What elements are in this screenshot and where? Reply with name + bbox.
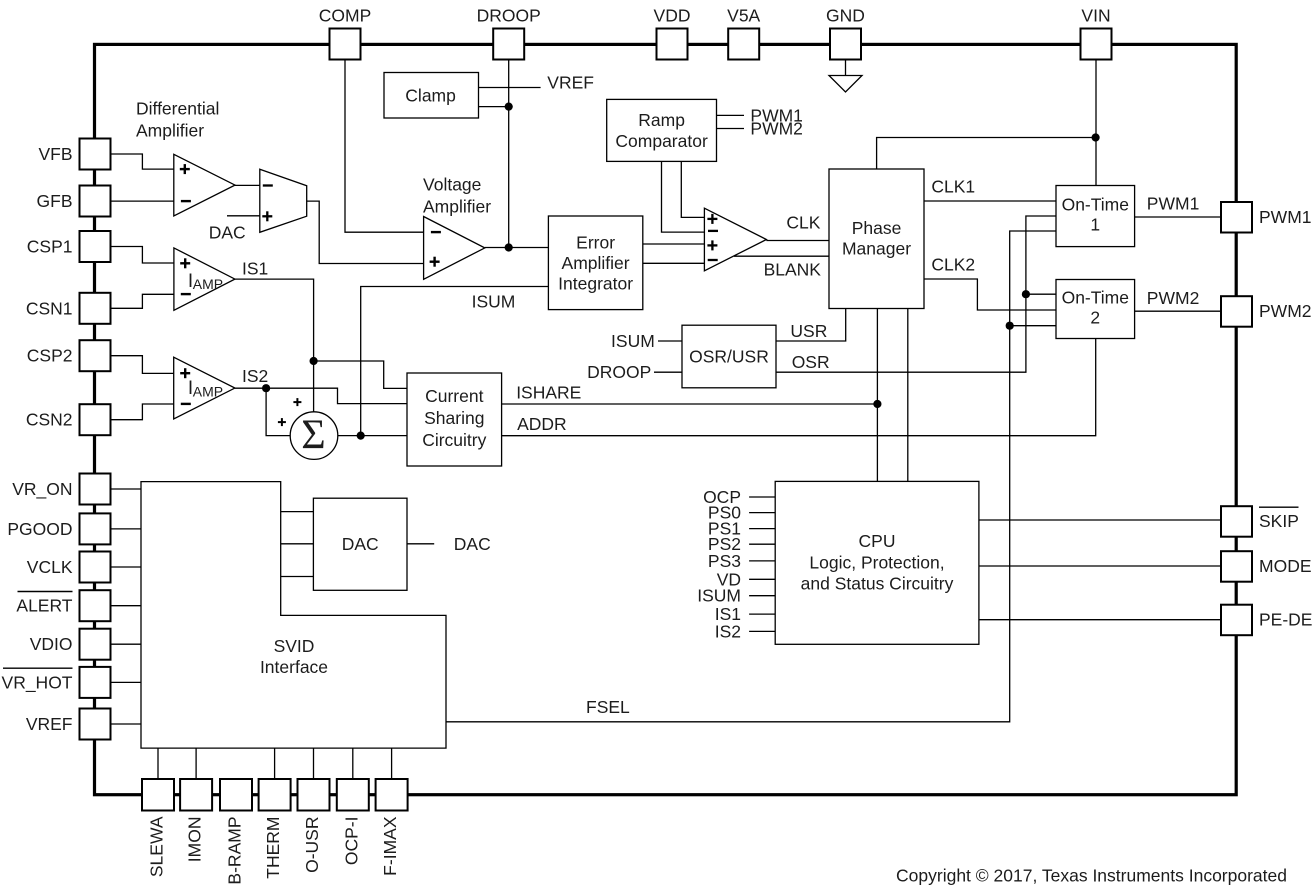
pin PWM1 [1221, 202, 1252, 233]
wire FSEL [446, 231, 1056, 722]
svg-text:IS1: IS1 [242, 259, 268, 279]
wire CSP2 to IAMP2 [111, 356, 174, 374]
wire IS1 stub [749, 613, 775, 615]
wire PS0 stub [749, 512, 775, 514]
block Ramp Comparator [607, 99, 717, 161]
pin SKIP [1221, 506, 1252, 537]
svg-text:VIN: VIN [1081, 6, 1110, 26]
wire SVID to DAC 2 [281, 543, 314, 545]
wire DROOP stub [654, 371, 682, 373]
wire SVID to IMON [195, 748, 197, 779]
svg-text:Manager: Manager [842, 239, 911, 259]
pin VFB [80, 139, 111, 170]
pin VR_ON [80, 474, 111, 505]
wire IS2 to summer [266, 388, 290, 435]
svg-text:VFB: VFB [38, 144, 72, 164]
block On-Time 1 [1056, 186, 1135, 247]
wire COMP to voltage amplifier [345, 60, 424, 233]
svg-text:Error: Error [576, 233, 615, 253]
pin CSP1 [80, 231, 111, 262]
pin F-IMAX [376, 779, 408, 811]
wire FSEL to on-time 2 [1010, 325, 1056, 327]
wire VIN down [1095, 60, 1097, 186]
svg-text:PGOOD: PGOOD [7, 519, 72, 539]
wire CLK [766, 240, 829, 242]
ground [845, 60, 847, 76]
svg-text:Integrator: Integrator [558, 274, 633, 294]
svg-text:OSR/USR: OSR/USR [689, 347, 769, 367]
svg-text:PWM2: PWM2 [1147, 288, 1200, 308]
svg-text:Voltage: Voltage [423, 175, 481, 195]
svg-text:Differential: Differential [136, 99, 219, 119]
svg-text:Amplifier: Amplifier [136, 121, 204, 141]
wire CSN2 to IAMP2 [111, 404, 174, 420]
svg-text:DROOP: DROOP [477, 6, 541, 26]
svg-text:VR_ON: VR_ON [12, 479, 72, 500]
block On-Time 2 [1056, 280, 1135, 339]
block OSR/USR [682, 325, 776, 388]
svg-text:CSP1: CSP1 [27, 237, 73, 257]
svg-text:SLEWA: SLEWA [147, 816, 167, 877]
op-amp differential amplifier [174, 154, 235, 216]
wire GFB to diff amp [111, 200, 174, 202]
pin VIN [1081, 29, 1112, 60]
svg-text:ISUM: ISUM [697, 586, 741, 606]
wire ISUM to error amplifier [361, 287, 549, 436]
svg-text:BLANK: BLANK [764, 260, 822, 280]
block Error Amplifier Integrator [548, 216, 642, 310]
mux DAC select [260, 169, 307, 232]
block Phase Manager [829, 169, 924, 309]
node IS1 branch [310, 357, 318, 365]
node VIN branch [1092, 133, 1100, 141]
svg-text:THERM: THERM [263, 817, 283, 879]
svg-text:VDD: VDD [654, 6, 691, 26]
block DAC [313, 498, 407, 590]
pin GFB [80, 186, 111, 217]
pin VR_HOT [80, 667, 111, 698]
svg-text:AMP: AMP [193, 276, 223, 292]
svg-text:Ramp: Ramp [638, 110, 685, 130]
wire PS1 stub [749, 528, 775, 530]
pin ALERT [80, 590, 111, 621]
pin GND [830, 29, 861, 60]
pin B-RAMP [220, 779, 252, 811]
wire EAI out1 [643, 243, 705, 245]
wire OSR [776, 216, 1056, 372]
op-amp IAMP1 [174, 248, 235, 310]
wire DAC out [407, 543, 434, 545]
wire SVID to SLEWA [157, 748, 159, 779]
wire USR [776, 309, 846, 342]
wire VR_ON to SVID [111, 488, 142, 490]
svg-text:ISUM: ISUM [611, 331, 655, 351]
svg-text:SVID: SVID [274, 636, 315, 656]
wire VDIO to SVID [111, 643, 142, 645]
svg-text:PE-DE: PE-DE [1259, 610, 1312, 630]
svg-text:Phase: Phase [852, 218, 902, 238]
wire SVID to DAC 1 [281, 511, 314, 513]
svg-text:CLK: CLK [786, 213, 820, 233]
wire ISHARE [502, 403, 878, 405]
op-amp voltage amplifier [424, 217, 485, 280]
wire ADDR [502, 339, 1096, 436]
svg-text:DAC: DAC [454, 534, 491, 554]
pin V5A [728, 29, 759, 60]
pin OCP-I [337, 779, 369, 811]
label plus left [278, 421, 286, 423]
node OSR branch [1022, 290, 1030, 298]
wire IS1 to current sharing [314, 361, 407, 388]
pin MODE [1221, 551, 1252, 582]
svg-text:COMP: COMP [319, 6, 372, 26]
wire VFB to diff amp [111, 154, 174, 169]
wire OCP stub [749, 496, 775, 498]
wire EAI out2 [643, 262, 705, 264]
wire VR_HOT to SVID [111, 681, 142, 683]
svg-text:DAC: DAC [342, 534, 379, 554]
svg-text:Amplifier: Amplifier [562, 253, 630, 273]
op-amp IAMP2 [174, 357, 235, 419]
wire CLK1 [924, 200, 1056, 202]
wire SVID to OCP-I [352, 748, 354, 779]
svg-text:Current: Current [425, 386, 483, 406]
node IS2 branch [262, 384, 270, 392]
wire PWM2 out [1135, 310, 1221, 312]
comparator [704, 208, 766, 271]
pin IMON [180, 779, 212, 811]
svg-text:On-Time: On-Time [1062, 288, 1129, 308]
pin PE-DE [1221, 605, 1252, 636]
svg-text:DAC: DAC [209, 223, 246, 243]
svg-text:VCLK: VCLK [27, 557, 73, 577]
svg-text:MODE: MODE [1259, 556, 1312, 576]
svg-text:OSR: OSR [792, 352, 830, 372]
svg-text:IMON: IMON [185, 817, 205, 863]
svg-text:Interface: Interface [260, 657, 328, 677]
svg-text:VR_HOT: VR_HOT [2, 672, 73, 693]
svg-text:AMP: AMP [193, 384, 223, 400]
pin VDIO [80, 629, 111, 660]
svg-text:CLK2: CLK2 [931, 255, 975, 275]
pin VREF [80, 709, 111, 740]
wire DAC stub to mux [227, 215, 260, 217]
wire SVID to F-IMAX [391, 748, 393, 779]
svg-text:PS3: PS3 [708, 551, 741, 571]
wire DROOP down [508, 60, 510, 248]
svg-text:VREF: VREF [26, 714, 73, 734]
block SVID Interface [141, 482, 446, 748]
svg-text:V5A: V5A [727, 6, 760, 26]
wire summer output [338, 435, 407, 437]
wire PS3 stub [749, 560, 775, 562]
node FSEL branch [1006, 322, 1014, 330]
svg-text:PWM1: PWM1 [1259, 207, 1312, 227]
wire ramp to comparator b [662, 161, 705, 232]
wire IS2 [235, 388, 407, 403]
wire OSR to on-time 2 [1026, 293, 1056, 295]
svg-text:DROOP: DROOP [587, 362, 651, 382]
svg-text:On-Time: On-Time [1062, 195, 1129, 215]
svg-text:Sharing: Sharing [424, 408, 484, 428]
wire VREF to SVID [111, 723, 142, 725]
svg-text:VREF: VREF [547, 73, 594, 93]
svg-text:ISUM: ISUM [472, 292, 516, 312]
label plus top [293, 401, 301, 403]
svg-text:GND: GND [826, 6, 865, 26]
svg-text:ISHARE: ISHARE [516, 383, 581, 403]
svg-text:ALERT: ALERT [16, 596, 72, 616]
pin CSN1 [80, 293, 111, 324]
pin DROOP [493, 29, 524, 60]
pin VDD [657, 29, 688, 60]
wire CLK2 [924, 279, 1056, 310]
pin COMP [330, 29, 361, 60]
svg-text:B-RAMP: B-RAMP [225, 817, 245, 885]
wire BLANK [734, 255, 829, 257]
node ISUM branch [357, 432, 365, 440]
pin O-USR [298, 779, 330, 811]
wire voltage amp output [485, 247, 549, 249]
wire SKIP [979, 519, 1221, 521]
svg-text:F-IMAX: F-IMAX [380, 816, 400, 876]
svg-text:CSP2: CSP2 [27, 346, 73, 366]
svg-text:Comparator: Comparator [615, 131, 708, 151]
svg-text:2: 2 [1090, 308, 1100, 328]
svg-text:and Status Circuitry: and Status Circuitry [801, 574, 954, 594]
wire IS2 stub [749, 630, 775, 632]
wire PGOOD to SVID [111, 528, 142, 530]
svg-text:PWM1: PWM1 [1147, 194, 1200, 214]
svg-text:CSN2: CSN2 [26, 410, 73, 430]
svg-text:CLK1: CLK1 [931, 177, 975, 197]
summer sigma [290, 412, 338, 460]
wire phase manager to CPU a [876, 309, 878, 482]
wire ISUM stub [749, 595, 775, 597]
wire PE-DE [979, 619, 1221, 621]
wire ramp PWM2 stub [717, 128, 745, 130]
wire mux output to voltage amplifier [307, 201, 424, 263]
svg-text:VDIO: VDIO [30, 634, 73, 654]
block Clamp [384, 73, 479, 119]
pin THERM [259, 779, 291, 811]
svg-text:Amplifier: Amplifier [423, 197, 491, 217]
svg-text:O-USR: O-USR [302, 817, 322, 873]
wire PWM1 out [1135, 216, 1221, 218]
node clamp droop [505, 103, 513, 111]
wire diff amp to mux [235, 184, 260, 186]
svg-text:CSN1: CSN1 [26, 298, 73, 318]
wire ramp to comparator a [681, 161, 704, 217]
wire CSP1 to IAMP1 [111, 247, 174, 264]
IC boundary [95, 44, 1237, 794]
block CPU [775, 481, 979, 644]
node ISHARE junction [873, 400, 881, 408]
wire VCLK to SVID [111, 566, 142, 568]
svg-text:Clamp: Clamp [405, 86, 456, 106]
svg-text:CPU: CPU [859, 531, 896, 551]
wire CSN1 to IAMP1 [111, 294, 174, 308]
svg-text:USR: USR [790, 321, 827, 341]
wire phase manager to CPU b [907, 309, 909, 482]
pin PWM2 [1221, 296, 1252, 327]
pin VCLK [80, 552, 111, 583]
wire ALERT to SVID [111, 605, 142, 607]
svg-text:ADDR: ADDR [517, 414, 567, 434]
svg-text:Σ: Σ [301, 413, 325, 459]
wire SVID to O-USR [313, 748, 315, 779]
svg-text:1: 1 [1090, 215, 1100, 235]
svg-text:PWM2: PWM2 [750, 119, 803, 139]
wire MODE [979, 565, 1221, 567]
svg-text:PWM2: PWM2 [1259, 301, 1312, 321]
wire ISUM stub [658, 340, 682, 342]
pin CSP2 [80, 340, 111, 371]
pin CSN2 [80, 404, 111, 435]
svg-text:GFB: GFB [37, 191, 73, 211]
svg-text:Circuitry: Circuitry [422, 430, 486, 450]
svg-text:OCP-I: OCP-I [341, 817, 361, 866]
svg-text:Logic, Protection,: Logic, Protection, [809, 553, 944, 573]
pin SLEWA [142, 779, 174, 811]
block Current Sharing Circuitry [407, 373, 502, 466]
wire IS1 [235, 279, 314, 412]
pin PGOOD [80, 513, 111, 544]
svg-text:IS2: IS2 [242, 366, 268, 386]
wire phase manager to VIN [877, 138, 1096, 170]
wire SVID to THERM [274, 748, 276, 779]
svg-text:FSEL: FSEL [586, 697, 630, 717]
svg-text:SKIP: SKIP [1259, 511, 1299, 531]
wire SVID to DAC 3 [281, 576, 314, 578]
wire ramp PWM1 stub [717, 114, 745, 116]
wire clamp to DROOP [479, 106, 509, 108]
wire VD stub [749, 578, 775, 580]
svg-text:IS2: IS2 [715, 621, 741, 641]
wire clamp VREF [479, 87, 541, 89]
svg-text:Copyright © 2017, Texas Instru: Copyright © 2017, Texas Instruments Inco… [896, 866, 1287, 886]
wire PS2 stub [749, 543, 775, 545]
node droop output [505, 243, 513, 251]
